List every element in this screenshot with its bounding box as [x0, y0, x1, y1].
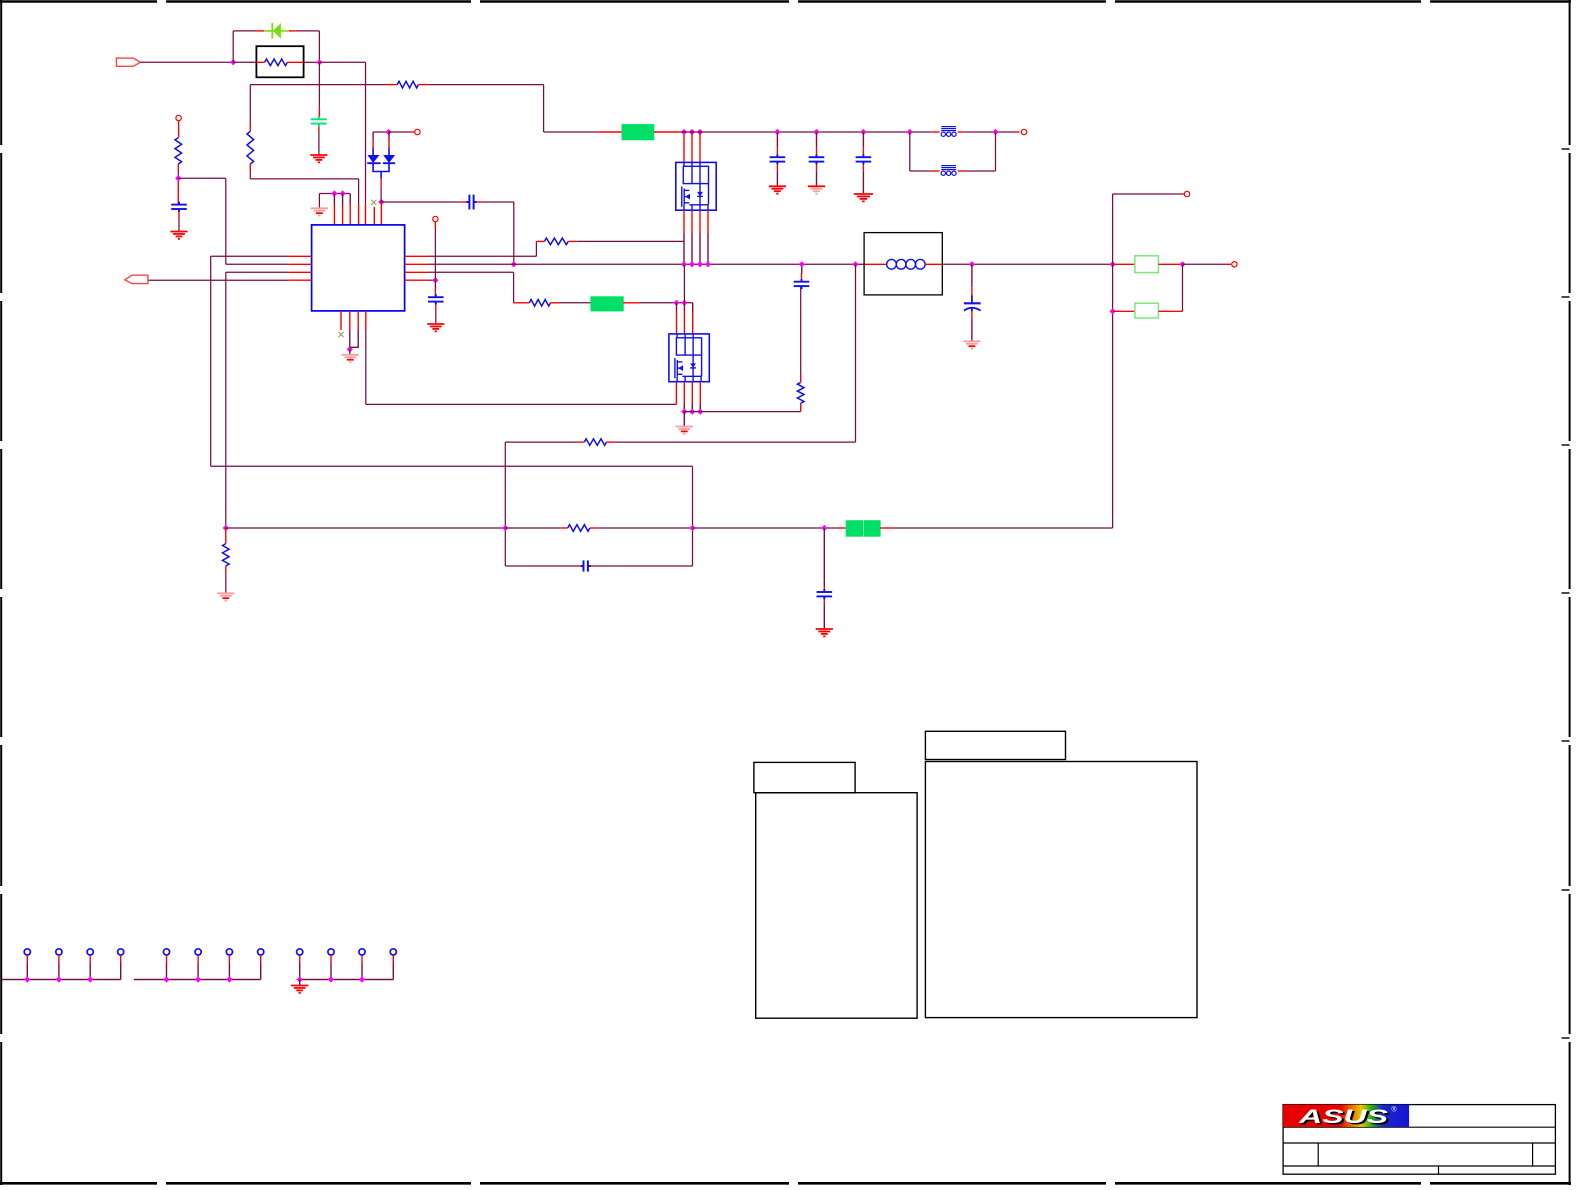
wire node C right	[178, 177, 226, 179]
wire pin B2 down	[349, 330, 351, 349]
pin lead R1 bottom	[177, 164, 179, 171]
pin lead Rs1 right	[1158, 263, 1182, 265]
pin lead cap1 bottom	[776, 165, 778, 171]
wire LED loop top right	[296, 30, 320, 32]
wire fb1 to node	[965, 131, 1014, 133]
pin lead inductor left	[864, 263, 887, 265]
transistor Q2 dual mosfet	[669, 334, 709, 382]
pin lead R9 right	[590, 527, 598, 529]
capacitor C12	[817, 589, 833, 599]
capacitor C8	[809, 154, 825, 164]
wire TP11 down	[361, 963, 363, 980]
junction bus q1 d	[705, 261, 711, 267]
wire cap C2 to ground	[318, 132, 320, 155]
junction tp bus 1	[56, 976, 62, 982]
diode D3	[383, 147, 395, 163]
wire x505 upper	[504, 442, 506, 466]
wire fb mid a	[505, 527, 560, 529]
junction comp node	[432, 277, 438, 283]
wire LED loop left vertical	[232, 31, 234, 62]
wire rs2 up	[1182, 264, 1184, 311]
junction pin T7 node	[378, 199, 384, 205]
pin lead C4 right	[477, 201, 483, 203]
pin lead chip left pin L2	[288, 263, 311, 265]
wire x1112 vertical	[1112, 194, 1114, 528]
pin lead C11 left	[578, 565, 581, 567]
title block divider a	[1317, 1143, 1319, 1166]
junction pin T1	[331, 190, 337, 196]
wire x225 down to fb	[225, 272, 227, 528]
pin lead R7 bottom	[800, 403, 802, 411]
pin lead cap C2 top	[318, 109, 320, 117]
no-connect X pin T6	[371, 200, 376, 205]
pin lead J1 left	[598, 131, 622, 133]
ground below C8	[808, 186, 825, 193]
pin lead C12 top	[823, 586, 825, 592]
wire L1 left	[211, 255, 289, 257]
wire C6 to bus	[801, 264, 803, 273]
pin lead R5 right	[551, 302, 561, 304]
wire x225 down to chip pin L2	[225, 178, 227, 264]
pin lead hs src d	[707, 210, 709, 233]
wire ls src c	[699, 404, 701, 412]
junction lgate b	[681, 300, 687, 306]
pin lead C5 top	[434, 288, 436, 297]
ground below C10	[963, 341, 980, 348]
junction bus q1 c	[697, 261, 703, 267]
wire comp node down	[434, 280, 436, 288]
title block row line 2	[1283, 1142, 1555, 1144]
capacitor C6	[794, 279, 810, 289]
wire diode node to port	[389, 131, 410, 133]
pin lead chip left pin L4	[288, 279, 311, 281]
pin lead J3 right	[880, 527, 893, 529]
wire ls drain c	[692, 303, 694, 311]
pin lead chip top pin 2	[342, 205, 344, 225]
junction ls src a	[681, 409, 687, 415]
pin lead chip right pin R1	[405, 255, 428, 257]
wire cap3 upper	[862, 132, 864, 148]
capacitor C11 series	[581, 560, 591, 571]
wire cout lower	[971, 318, 973, 341]
wire tp bus 1	[2, 979, 121, 981]
wire hs src b	[691, 233, 693, 264]
test point TP2	[56, 949, 62, 955]
component box PR1	[256, 46, 303, 77]
junction input node A	[230, 59, 236, 65]
pin lead output port	[1227, 263, 1231, 265]
pin lead R9 left	[560, 527, 568, 529]
LED D1 green	[264, 23, 289, 39]
wire TP4 down	[120, 963, 122, 980]
junction vin cap 2	[813, 129, 819, 135]
port P3	[433, 216, 438, 221]
pin lead TP6	[197, 955, 199, 963]
pin lead TP1	[26, 955, 28, 963]
pin lead Rs2 right	[1158, 310, 1182, 312]
wire tp ground stub	[299, 980, 301, 986]
junction diode node	[386, 129, 392, 135]
pin lead chip right pin R3	[405, 271, 428, 273]
table box 1 body	[756, 793, 917, 1019]
capacitor C7	[770, 154, 786, 164]
wire y194 to port	[1113, 193, 1180, 195]
wire ls drain b	[683, 303, 685, 311]
pin lead Rs1 left	[1113, 263, 1135, 265]
test point TP4	[118, 949, 124, 955]
resistor R7 vertical	[797, 382, 804, 403]
sheet border bottom	[0, 1182, 1571, 1185]
controller IC U1	[312, 225, 405, 311]
wire y202 from T7	[381, 201, 459, 203]
wire ls src b	[691, 404, 693, 412]
wire pin T1 stub	[333, 194, 335, 206]
wire TP3 down	[89, 963, 91, 980]
wire y132 from corner	[544, 131, 599, 133]
wire x543 down	[543, 85, 545, 132]
title block outer	[1283, 1105, 1555, 1175]
jumper J2 green box	[591, 297, 623, 311]
title block row line 1	[1283, 1126, 1555, 1128]
diode D2	[367, 147, 380, 163]
pin lead C3 bottom	[178, 212, 180, 218]
pin lead hs drain b2	[691, 132, 693, 162]
wire tp bus 2	[134, 979, 261, 981]
resistor R9	[568, 525, 590, 532]
ground below C7	[769, 186, 786, 193]
wire cap1 upper	[776, 132, 778, 148]
wire fb right edge	[692, 466, 694, 566]
wire vertical x365 down	[365, 62, 367, 205]
junction bus q1 a	[681, 261, 687, 267]
wire R1 to x536	[428, 255, 537, 257]
table box 2 tab	[925, 731, 1065, 759]
ground tp row	[291, 986, 308, 993]
pin lead choke1 left	[932, 131, 940, 133]
svg-text:ASUS: ASUS	[1297, 1106, 1388, 1128]
pin lead R6 bottom	[225, 566, 227, 573]
pin lead R3 bottom	[249, 164, 251, 171]
pin lead ls drain a	[676, 311, 678, 334]
pin lead TP10	[330, 955, 332, 963]
wire R4 to dot	[428, 279, 436, 281]
junction ls src c	[697, 409, 703, 415]
wire R5 to jumper	[560, 302, 591, 304]
pin lead cap3 top	[862, 148, 864, 155]
ground below R6	[217, 593, 234, 600]
wire gnd stub	[349, 349, 351, 354]
pin lead cap1 top	[776, 148, 778, 155]
pin lead R4 right	[568, 240, 577, 242]
wire fb top edge	[211, 465, 693, 467]
resistor PR1	[265, 59, 288, 66]
junction node B	[316, 59, 322, 65]
test point TP7	[226, 949, 232, 955]
wire y179 to chip pin T4	[250, 178, 358, 180]
wire hs src a	[683, 233, 685, 264]
wire tp bus 3	[300, 979, 394, 981]
junction tp bus 2	[195, 976, 201, 982]
junction tp bus 1	[87, 976, 93, 982]
ferrite bead FB1	[941, 127, 956, 137]
junction fb node	[223, 525, 229, 531]
wire TP7 down	[228, 963, 230, 980]
pin lead TP4	[120, 955, 122, 963]
wire R7 up to C6	[800, 286, 802, 375]
wire TP10 down	[330, 963, 332, 980]
junction bus at x513	[511, 261, 517, 267]
test point TP10	[328, 949, 334, 955]
junction tp bus 2	[226, 976, 232, 982]
wire hs src c	[699, 233, 701, 264]
wire x513 down2	[513, 272, 515, 303]
junction vin cap 3	[860, 129, 866, 135]
pin lead R7 top	[800, 376, 802, 383]
port P5	[1184, 191, 1189, 196]
wire diode D3 anode upper	[388, 132, 390, 140]
pin lead ls src c	[699, 382, 701, 404]
jumper J3 green box b	[864, 521, 880, 537]
ground below C12	[816, 629, 833, 636]
junction bus c6	[799, 261, 805, 267]
wire fb2 bottom left	[910, 170, 933, 172]
test point TP9	[297, 949, 303, 955]
resistor Rs2 green outline	[1135, 303, 1159, 318]
wire R1 to junction	[177, 171, 179, 176]
pin lead ls src a	[683, 382, 685, 404]
wire x536 up	[535, 241, 537, 256]
wire x513 down to bus	[513, 202, 515, 264]
pin lead hs src b	[691, 210, 693, 233]
wire TP12 down	[392, 963, 394, 980]
wire R3 to x513	[428, 271, 514, 273]
wire diode common down	[380, 187, 382, 200]
pin lead hs src a	[683, 210, 685, 233]
pin lead port P3 down	[434, 222, 436, 229]
wire gnd stub q2	[683, 412, 685, 427]
junction pin T2	[340, 190, 346, 196]
wire fb left edge	[504, 466, 506, 566]
wire TP6 down	[197, 963, 199, 980]
wire x855 down	[855, 264, 857, 442]
wire fb bottom left	[505, 565, 578, 567]
resistor R5 lgate	[529, 300, 550, 307]
resistor R1 vertical	[175, 138, 182, 164]
wire vin rail	[680, 131, 932, 133]
pin lead ls drain c	[692, 311, 694, 334]
wire pin B4 down	[365, 330, 367, 404]
test point TP6	[195, 949, 201, 955]
ground below C2	[310, 155, 327, 162]
wire TP9 down	[299, 963, 301, 980]
wire cout upper	[971, 264, 973, 287]
pin lead TP11	[361, 955, 363, 963]
pin lead R8 right	[607, 441, 615, 443]
wire x210 down	[210, 256, 212, 466]
test point TP3	[87, 949, 93, 955]
pin lead chip top pin 7	[380, 202, 382, 225]
ground below C3	[170, 232, 187, 239]
pin lead J2 right	[623, 302, 640, 304]
wire box left to resistor	[233, 61, 256, 63]
wire LED loop right vertical	[318, 31, 320, 62]
wire cap2 lower	[816, 171, 818, 186]
wire C12 to ground	[823, 605, 825, 629]
resistor Rs1 green outline	[1135, 256, 1159, 273]
pin lead inductor right	[925, 263, 942, 265]
wire y85 horizontal left	[250, 84, 386, 86]
port VOUT	[1232, 262, 1237, 267]
pin lead R3 top	[249, 123, 251, 131]
junction bus cout	[969, 261, 975, 267]
wire C5 to ground	[435, 310, 437, 324]
wire out node 2 to port	[1183, 263, 1228, 265]
pin lead R6 top	[225, 528, 227, 544]
junction fb mid right	[689, 525, 695, 531]
wire L4 to connector	[148, 279, 288, 281]
pin lead diode D2 anode	[372, 140, 374, 147]
wire R6 to ground	[225, 573, 227, 593]
pin lead diode common	[380, 178, 382, 187]
sheet border left	[0, 0, 2, 1185]
ground below C9	[854, 194, 873, 201]
junction out node 3	[1110, 308, 1116, 314]
wire node B to vertical x365	[319, 61, 365, 63]
pin lead J1 right	[654, 131, 680, 133]
pin lead LED anode	[256, 30, 264, 32]
wire pin T2 stub	[342, 194, 344, 206]
pin lead cap2 top	[816, 148, 818, 155]
junction tp bus 1	[24, 976, 30, 982]
wire ls drain a	[676, 303, 678, 311]
wire lgate gate rail	[366, 403, 677, 405]
wire divider down	[823, 528, 825, 586]
wire fb2 bottom right	[965, 170, 996, 172]
wire node B down	[318, 62, 320, 109]
wire diode cathode bracket	[373, 163, 389, 178]
wire fb mid left	[226, 527, 506, 529]
pin lead C6 top	[801, 273, 803, 279]
pin lead TP2	[58, 955, 60, 963]
wire output bus	[942, 263, 1112, 265]
capacitor C9	[856, 154, 872, 164]
pin lead R8 left	[578, 441, 584, 443]
wire lgate rail	[640, 302, 693, 304]
pin lead cout bottom	[971, 311, 973, 318]
table box 2 body	[925, 762, 1197, 1018]
junction tp bus 3	[328, 976, 334, 982]
pin lead C4 left	[459, 201, 466, 203]
no-connect X pin B1	[338, 332, 343, 337]
junction tp bus 2	[163, 976, 169, 982]
port P2	[415, 129, 420, 134]
wire y85 horizontal right	[429, 84, 544, 86]
pin lead ls drain b	[683, 311, 685, 334]
ASUS logo	[1283, 1105, 1409, 1128]
wire R3 to corner	[249, 171, 251, 179]
wire y202 right	[483, 201, 514, 203]
wire LED loop top left	[233, 30, 256, 32]
pin lead chip bottom pin B3	[357, 311, 359, 330]
pin lead chip bottom pin B2	[349, 311, 351, 330]
test point TP8	[258, 949, 264, 955]
transistor Q1 dual mosfet	[676, 162, 716, 210]
wire C3 to ground	[178, 218, 180, 231]
wire phase bus	[428, 263, 864, 265]
junction tp bus 3	[297, 976, 303, 982]
resistor R3 vertical	[247, 131, 254, 164]
junction lgate a	[673, 300, 679, 306]
pin lead TP5	[166, 955, 168, 963]
resistor R8	[584, 439, 606, 446]
wire hs drain stub a	[683, 132, 685, 140]
pin lead choke1 right	[958, 131, 965, 133]
pin lead R2 left	[386, 84, 397, 86]
pin lead cap2 bottom	[816, 165, 818, 171]
ground below Q2	[676, 427, 693, 434]
wire ls source rail	[684, 411, 800, 413]
pin lead C5 bottom	[435, 305, 437, 310]
wire y442 to corner	[505, 441, 578, 443]
wire stub diode to dot	[380, 200, 382, 203]
pin lead chip top pin 4	[358, 205, 360, 225]
wire R4 to fet gate	[577, 240, 684, 242]
sheet border right	[1562, 0, 1570, 1185]
wire fb bottom right	[594, 565, 693, 567]
pin lead chip top pin 1	[333, 205, 335, 225]
wire L2 left	[226, 263, 288, 265]
resistor R4 gate	[544, 238, 568, 245]
inductor L1 coil	[887, 259, 926, 269]
wire ls src a	[683, 404, 685, 412]
wire x358 down	[358, 179, 360, 205]
capacitor C4 series	[466, 195, 476, 210]
ferrite bead FB2	[941, 166, 956, 176]
junction out node 2	[1179, 261, 1185, 267]
table box 1 tab	[754, 762, 855, 792]
wire fb mid b	[598, 527, 693, 529]
pin lead resistor PR1 left	[256, 61, 264, 63]
wire fb2 left vertical	[909, 132, 911, 171]
wire cap1 lower	[776, 171, 778, 186]
capacitor C10 polarized	[964, 295, 981, 311]
ground chip bottom	[342, 355, 359, 362]
junction fb left	[907, 129, 913, 135]
junction ls src b	[689, 409, 695, 415]
junction bus q1 b	[689, 261, 695, 267]
wire TP5 down	[166, 963, 168, 980]
jumper J1 green box	[622, 125, 654, 140]
wire cap2 upper	[816, 132, 818, 148]
input port connector	[116, 58, 140, 66]
test point TP11	[359, 949, 365, 955]
wire TP1 down	[26, 963, 28, 980]
pin lead hs src c	[699, 210, 701, 233]
pin lead R5 left	[514, 302, 530, 304]
wire fb2 right vertical	[995, 132, 997, 171]
junction divider	[821, 525, 827, 531]
pin lead resistor PR1 right	[287, 61, 303, 63]
wire pin T3 stub	[349, 194, 351, 206]
pin lead chip bottom pin B1	[340, 311, 342, 330]
pin lead chip top pin 3	[349, 205, 351, 225]
pin lead node C down	[177, 181, 179, 205]
pin lead C11 right	[591, 565, 594, 567]
port VIN5	[1021, 129, 1026, 134]
junction chip gnd	[347, 346, 353, 352]
wire q1a below bus	[683, 264, 685, 303]
wire y442 left	[615, 441, 856, 443]
